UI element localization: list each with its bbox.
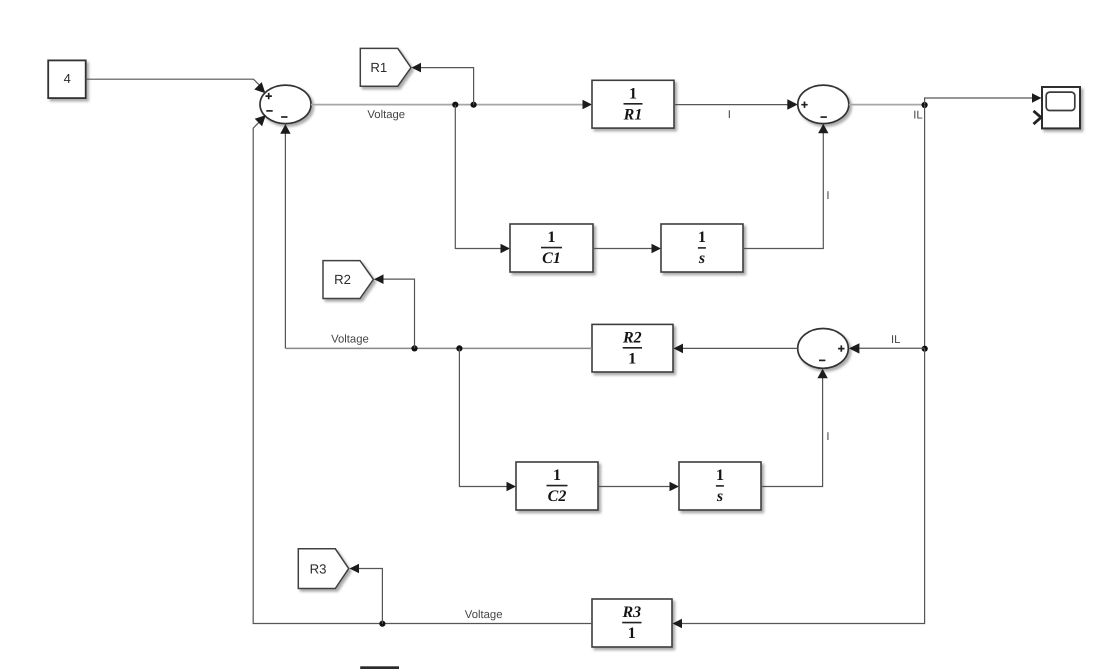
node: Voltage junction 4 bbox=[456, 345, 462, 351]
svg-text:R3: R3 bbox=[621, 604, 641, 621]
wire: IL feedback down (top to middle) bbox=[924, 105, 926, 349]
integrator block 1/s (bottom) bbox=[679, 462, 761, 510]
gain block R2/1 bbox=[592, 324, 673, 372]
svg-text:Voltage: Voltage bbox=[367, 109, 405, 121]
wire: R2/1 output Voltage trunk to S1 (- bottom input) bbox=[280, 124, 592, 348]
svg-text:C2: C2 bbox=[548, 488, 567, 505]
goto tag R2 bbox=[323, 261, 373, 299]
svg-text:R2: R2 bbox=[622, 329, 642, 346]
wire: 1/C1 to integrator 1/s (top) bbox=[593, 244, 661, 254]
svg-text:1: 1 bbox=[628, 625, 636, 642]
sum S3 bbox=[798, 329, 849, 369]
svg-text:I: I bbox=[728, 109, 731, 121]
constant block "4" bbox=[48, 60, 85, 98]
wire: 1/C2 to integrator 1/s (bottom) bbox=[598, 482, 679, 492]
node: Voltage junction 5 bbox=[379, 621, 385, 627]
gain block R3/1 bbox=[592, 599, 672, 647]
wire: 1/s (bottom) up to S3 (- input) bbox=[761, 369, 828, 487]
wire: S3 output to gain R2/1 bbox=[674, 344, 798, 354]
wire: R3/1 output Voltage trunk to S1 (- diagonal input) bbox=[253, 115, 592, 623]
svg-text:4: 4 bbox=[64, 71, 71, 86]
gain block 1/R1 bbox=[592, 80, 674, 128]
wire: branch up to goto tag R2 bbox=[374, 274, 415, 348]
node IL (middle) bbox=[922, 346, 928, 352]
node: Voltage junction 2 bbox=[471, 102, 477, 108]
wire: 1/R1 to sum S2 bbox=[674, 99, 798, 109]
goto tag R1 bbox=[360, 48, 411, 86]
svg-text:IL: IL bbox=[913, 109, 922, 121]
goto tag R3 bbox=[298, 549, 348, 589]
wire: S2 output to IL node bbox=[849, 104, 925, 106]
wire: branch up to goto tag R1 bbox=[412, 63, 474, 105]
svg-text:1: 1 bbox=[716, 467, 724, 484]
svg-text:s: s bbox=[698, 250, 705, 267]
svg-text:I: I bbox=[826, 431, 829, 443]
wire: IL feedback down to gain R3/1 bbox=[673, 349, 925, 629]
wire: S1 output Voltage trunk bbox=[311, 100, 592, 110]
svg-text:IL: IL bbox=[891, 334, 900, 346]
svg-text:s: s bbox=[716, 488, 723, 505]
gain block 1/C2 bbox=[516, 462, 598, 510]
partial block at bottom edge bbox=[360, 666, 399, 669]
integrator block 1/s (top) bbox=[661, 224, 743, 272]
svg-text:1: 1 bbox=[553, 467, 561, 484]
sum S2 bbox=[798, 85, 849, 124]
wire: IL node to scope bbox=[925, 93, 1042, 104]
wire: branch down from junction 4 to gain 1/C2 bbox=[459, 348, 516, 491]
node: Voltage junction 1 bbox=[452, 102, 458, 108]
svg-text:R1: R1 bbox=[623, 106, 643, 123]
svg-text:1: 1 bbox=[548, 229, 556, 246]
svg-text:R3: R3 bbox=[310, 561, 327, 576]
svg-text:C1: C1 bbox=[542, 250, 561, 267]
svg-text:I: I bbox=[826, 190, 829, 202]
gain block 1/C1 bbox=[510, 224, 593, 272]
wire: IL node to sum S3 (+ input) bbox=[849, 343, 925, 353]
svg-text:Voltage: Voltage bbox=[331, 334, 369, 346]
node IL (top) bbox=[922, 102, 928, 108]
wire: branch down from junction 1 to gain 1/C1 bbox=[455, 105, 510, 254]
svg-text:1: 1 bbox=[628, 350, 636, 367]
sum S1 bbox=[260, 85, 311, 124]
svg-text:R1: R1 bbox=[370, 60, 387, 75]
node: Voltage junction 3 bbox=[411, 345, 417, 351]
svg-text:R2: R2 bbox=[334, 272, 351, 287]
wire: 1/s (top) up to S2 (- input) bbox=[743, 124, 829, 249]
svg-text:1: 1 bbox=[698, 229, 706, 246]
svg-text:Voltage: Voltage bbox=[465, 609, 503, 621]
scope block bbox=[1034, 87, 1081, 128]
svg-text:1: 1 bbox=[629, 85, 637, 102]
wire: constant 4 to sum S1 (+ input) bbox=[86, 79, 266, 93]
wire: branch up to goto tag R3 bbox=[350, 564, 383, 624]
